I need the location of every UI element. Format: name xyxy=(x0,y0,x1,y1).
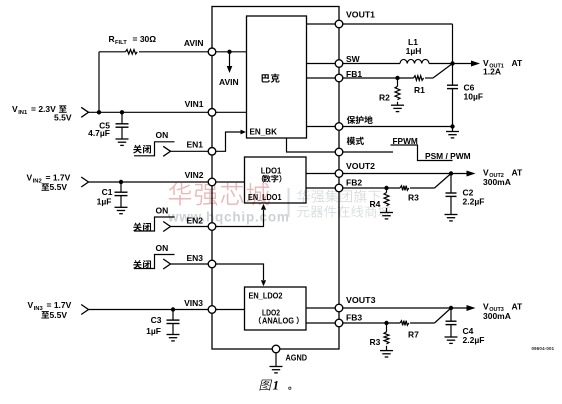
label VIN2 source xyxy=(27,173,71,193)
svg-text:5.5V: 5.5V xyxy=(54,113,72,123)
label C5 xyxy=(88,120,110,138)
svg-text:R2: R2 xyxy=(379,92,390,102)
resistor R7 xyxy=(400,321,409,326)
pin AGND xyxy=(272,345,280,353)
wire VIN3 xyxy=(89,309,209,311)
ground C3 xyxy=(167,324,180,341)
ground C5 xyxy=(116,127,129,145)
label 模式 pin xyxy=(347,137,364,145)
svg-text:ON: ON xyxy=(156,130,169,140)
node VOUT3 output junction xyxy=(449,306,453,310)
label 保护地 pin xyxy=(347,116,373,124)
label C1 xyxy=(97,187,113,207)
pin VIN1 xyxy=(208,109,216,117)
svg-text:= 1.7V: = 1.7V xyxy=(46,173,71,183)
switch EN1 waveform xyxy=(134,142,175,157)
label ON (EN3) xyxy=(156,243,169,253)
output arrow VOUT3 xyxy=(451,305,476,311)
svg-text:VOUT3: VOUT3 xyxy=(346,295,376,305)
svg-text:5.5V: 5.5V xyxy=(50,182,68,192)
svg-text:2.2µF: 2.2µF xyxy=(463,197,485,207)
svg-text:IN2: IN2 xyxy=(33,179,42,185)
label C2 xyxy=(463,187,485,206)
wire FB3 internal xyxy=(307,322,336,324)
pin FB3 xyxy=(335,319,343,327)
label R1 xyxy=(414,85,425,95)
svg-text:V: V xyxy=(483,301,489,311)
resistor R1 xyxy=(414,76,424,81)
svg-text:V: V xyxy=(12,104,18,114)
node VOUT1 output junction xyxy=(450,61,454,65)
pin VOUT3 xyxy=(335,304,343,312)
AVIN internal arrow xyxy=(227,52,233,73)
pin AVIN xyxy=(208,48,216,56)
ground R3 (LDO2 divider) xyxy=(380,346,393,357)
label L1 xyxy=(406,37,422,56)
svg-text:V: V xyxy=(27,173,33,183)
svg-text:ON: ON xyxy=(156,243,169,253)
label VIN2 pin xyxy=(185,170,204,180)
ground R4 xyxy=(380,208,393,219)
label LDO1 xyxy=(261,165,282,175)
pin EN2 xyxy=(208,223,216,231)
wire FB1 to R1 xyxy=(343,77,414,79)
label （数字） xyxy=(262,175,282,183)
svg-text:FPWM: FPWM xyxy=(393,136,418,146)
label figure code 09604-001 xyxy=(532,346,555,351)
label C4 xyxy=(463,326,485,345)
resistor RFILT xyxy=(126,50,138,55)
capacitor C1 xyxy=(115,182,128,196)
node VOUT2 output junction xyxy=(449,171,453,175)
resistor R4 xyxy=(384,188,389,206)
wire R7 to node diagonal xyxy=(410,308,451,323)
wire VIN1 riser xyxy=(98,52,100,113)
label R3 xyxy=(408,193,419,203)
svg-text:AGND: AGND xyxy=(286,352,308,362)
capacitor C3 xyxy=(167,310,180,324)
label FPWM xyxy=(393,136,418,146)
svg-text:09604-001: 09604-001 xyxy=(532,346,555,351)
svg-text:R3: R3 xyxy=(408,193,419,203)
wire VIN2 xyxy=(89,181,209,183)
svg-text:AT: AT xyxy=(512,167,524,177)
label VIN1 source xyxy=(12,104,72,123)
label AGND pin xyxy=(286,352,308,362)
wire FB2 to R3 xyxy=(343,187,400,189)
svg-text:4.7µF: 4.7µF xyxy=(88,128,110,138)
label EN3 pin xyxy=(186,253,203,263)
svg-text:1µF: 1µF xyxy=(97,197,112,207)
svg-text:FB2: FB2 xyxy=(346,178,362,188)
label FB1 pin xyxy=(346,69,362,79)
wire R3 to node diagonal xyxy=(410,174,451,189)
node C5 junction xyxy=(120,110,124,114)
svg-text:AVIN: AVIN xyxy=(184,38,204,48)
label ON (EN1) xyxy=(156,130,169,140)
IC outer boundary box U1 xyxy=(212,7,339,350)
caption 图1 xyxy=(259,378,291,393)
label C3 xyxy=(146,315,162,336)
wire VOUT1 to output node xyxy=(343,24,453,64)
svg-text:EN1: EN1 xyxy=(186,139,203,149)
node VIN1-riser junction xyxy=(97,110,101,114)
wire AVIN internal xyxy=(216,51,247,53)
svg-text:FILT: FILT xyxy=(115,40,127,46)
wire SW internal xyxy=(307,63,336,65)
label VOUT1 pin xyxy=(346,9,375,19)
inductor L1 xyxy=(400,59,429,63)
pin VIN3 xyxy=(208,306,216,314)
pin VIN2 xyxy=(208,178,216,186)
wire VOUT2 internal xyxy=(307,173,336,175)
wire EN3 xyxy=(171,263,209,265)
svg-text:= 2.3V: = 2.3V xyxy=(31,104,56,114)
svg-text:R: R xyxy=(109,34,115,44)
svg-text:1µH: 1µH xyxy=(406,46,422,56)
svg-text:ON: ON xyxy=(156,206,169,216)
label EN1 pin xyxy=(186,139,203,149)
watermark separator bar xyxy=(288,188,290,217)
svg-text:SW: SW xyxy=(346,54,361,64)
wire VOUT1 internal xyxy=(307,23,336,25)
label C6 xyxy=(464,82,484,101)
wire EN2 to EN_LDO1 xyxy=(216,204,267,227)
label R7 xyxy=(408,330,419,340)
svg-text:R3: R3 xyxy=(370,337,381,347)
pin SW xyxy=(335,60,343,68)
wire VIN2 internal xyxy=(216,181,245,183)
label AVIN internal xyxy=(219,77,239,87)
svg-text:VOUT2: VOUT2 xyxy=(346,161,375,171)
svg-text:EN2: EN2 xyxy=(186,215,203,225)
pin PGND xyxy=(335,123,343,131)
input chevron VIN2 xyxy=(81,177,88,187)
svg-text:2.2µF: 2.2µF xyxy=(463,335,485,345)
wire L1 to node xyxy=(429,63,453,65)
label VIN3 pin xyxy=(184,298,203,308)
node FB1 divider junction xyxy=(395,76,399,80)
svg-text:C1: C1 xyxy=(102,187,113,197)
svg-text:R4: R4 xyxy=(370,199,381,209)
output arrow VOUT2 xyxy=(451,171,476,177)
ground C2 xyxy=(445,196,458,221)
svg-text:EN_BK: EN_BK xyxy=(250,126,278,136)
label RFILT = 30Ω xyxy=(109,34,157,46)
capacitor C6 xyxy=(447,64,458,89)
wire FB2 internal xyxy=(307,187,336,189)
wire EN3 to EN_LDO2 xyxy=(216,264,267,286)
resistor R3 xyxy=(400,186,409,191)
label AVIN pin xyxy=(184,38,204,48)
mode waveform xyxy=(391,145,453,161)
buck regulator block xyxy=(247,16,307,138)
pin FB1 xyxy=(335,74,343,82)
label 关闭 (EN1) xyxy=(133,145,151,154)
ground PGND xyxy=(446,127,459,138)
svg-text:AT: AT xyxy=(512,58,524,68)
resistor R3 (LDO2 divider) xyxy=(384,323,389,344)
label VIN3 source xyxy=(28,300,72,320)
label EN_BK xyxy=(250,126,278,136)
ground C4 xyxy=(445,325,458,344)
watermark text 华强集团旗下 xyxy=(297,190,380,203)
svg-text:1µF: 1µF xyxy=(146,326,161,336)
svg-text:R1: R1 xyxy=(414,85,425,95)
wire MODE internal xyxy=(287,138,336,152)
svg-text:EN_LDO2: EN_LDO2 xyxy=(249,290,283,300)
resistor R2 xyxy=(395,78,400,100)
ground C1 xyxy=(115,196,128,214)
svg-text:VOUT1: VOUT1 xyxy=(346,9,375,19)
LDO1 block xyxy=(245,157,307,203)
label LDO2 xyxy=(262,307,280,317)
svg-text:IN3: IN3 xyxy=(34,306,44,312)
pin VOUT1 xyxy=(335,20,343,28)
label （ANALOG） xyxy=(259,315,299,325)
capacitor C2 xyxy=(446,174,457,197)
wire SW to L1 xyxy=(343,63,400,65)
svg-text:1.2A: 1.2A xyxy=(483,67,501,77)
svg-text:IN1: IN1 xyxy=(18,110,28,116)
svg-text:LDO1: LDO1 xyxy=(261,165,282,175)
pin EN3 xyxy=(208,260,216,268)
svg-text:5.5V: 5.5V xyxy=(50,310,68,320)
wire VOUT3 internal xyxy=(307,307,336,309)
svg-text:R7: R7 xyxy=(408,330,419,340)
svg-text:= 30Ω: = 30Ω xyxy=(133,34,157,44)
wire AVIN left segment xyxy=(99,51,208,53)
wire PGND xyxy=(343,126,453,128)
label VOUT3 pin xyxy=(346,295,376,305)
label R3 (LDO2 divider) xyxy=(370,337,381,347)
wire VIN1 internal xyxy=(216,111,247,113)
svg-text:V: V xyxy=(28,300,34,310)
label EN2 pin xyxy=(186,215,203,225)
watermark text www.hqchip.com xyxy=(167,210,290,225)
label R2 xyxy=(379,92,390,102)
wire FB1 internal xyxy=(307,77,336,79)
label VOUT3 output xyxy=(483,301,523,321)
svg-text:PSM / PWM: PSM / PWM xyxy=(425,151,471,161)
wire VIN3 internal xyxy=(216,309,245,311)
wire EN1 to EN_BK xyxy=(216,130,246,152)
label ON (EN2) xyxy=(156,206,169,216)
capacitor C5 xyxy=(116,112,129,127)
label PSM / PWM xyxy=(425,151,471,161)
label FB3 pin xyxy=(346,312,362,322)
wire MODE stub xyxy=(343,151,393,153)
label R4 xyxy=(370,199,381,209)
wire PGND internal xyxy=(307,126,336,128)
capacitor C4 xyxy=(446,308,457,325)
wire C6 to PGND line xyxy=(452,89,454,127)
pin EN1 xyxy=(208,148,216,156)
LDO2 block xyxy=(245,287,307,330)
svg-text:AVIN: AVIN xyxy=(219,77,239,87)
label 关闭 (EN3) xyxy=(133,260,151,269)
svg-text:= 1.7V: = 1.7V xyxy=(47,300,72,310)
pin MODE xyxy=(335,148,343,156)
watermark text 元器件在线商城 xyxy=(297,205,390,217)
label FB2 pin xyxy=(346,178,362,188)
wire FB3 to R7 xyxy=(343,322,400,324)
output arrow VOUT1 xyxy=(453,61,481,67)
svg-text:EN_LDO1: EN_LDO1 xyxy=(248,192,282,202)
svg-text:C3: C3 xyxy=(151,315,162,325)
label 关闭 (EN2) xyxy=(133,223,151,232)
svg-text:FB3: FB3 xyxy=(346,312,362,322)
switch EN2 waveform xyxy=(134,217,175,232)
node AVIN junction xyxy=(227,50,231,54)
svg-text:300mA: 300mA xyxy=(483,311,511,321)
svg-text:10µF: 10µF xyxy=(464,92,484,102)
label 巴克 (buck) xyxy=(262,74,280,83)
wire R1 to node diagonal xyxy=(425,64,453,79)
label VOUT2 pin xyxy=(346,161,375,171)
node C3 junction xyxy=(171,307,175,311)
label VOUT2 output xyxy=(483,167,523,187)
svg-text:ANALOG: ANALOG xyxy=(262,315,294,325)
svg-text:VIN1: VIN1 xyxy=(185,99,204,109)
svg-text:300mA: 300mA xyxy=(483,177,511,187)
pin VOUT2 xyxy=(335,170,343,178)
svg-text:1: 1 xyxy=(273,378,280,393)
svg-text:www.hqchip.com: www.hqchip.com xyxy=(167,210,290,225)
node PGND junction xyxy=(450,124,454,128)
watermark text 华强芯城 xyxy=(169,183,270,206)
wire VIN1 xyxy=(89,111,209,113)
node C1 junction xyxy=(119,180,123,184)
ground R2 xyxy=(391,102,404,112)
svg-text:AT: AT xyxy=(512,301,524,311)
label VOUT1 output xyxy=(483,58,523,77)
svg-text:EN3: EN3 xyxy=(186,253,203,263)
label EN_LDO1 xyxy=(248,192,282,202)
input chevron VIN1 xyxy=(81,107,88,117)
node FB2 divider junction xyxy=(384,186,388,190)
ground AGND xyxy=(270,353,283,373)
wire VOUT3 xyxy=(343,307,451,309)
switch EN3 waveform xyxy=(134,255,175,270)
svg-text:VIN2: VIN2 xyxy=(185,170,204,180)
svg-text:V: V xyxy=(483,167,489,177)
node FB3 divider junction xyxy=(384,321,388,325)
wire EN1 xyxy=(171,150,209,152)
wire EN2 xyxy=(171,226,209,228)
wire VOUT2 xyxy=(343,173,451,175)
input chevron VIN3 xyxy=(81,305,88,315)
pin FB2 xyxy=(335,184,343,192)
svg-text:VIN3: VIN3 xyxy=(184,298,203,308)
label EN_LDO2 xyxy=(249,290,283,300)
label SW pin xyxy=(346,54,361,64)
label VIN1 pin xyxy=(185,99,204,109)
